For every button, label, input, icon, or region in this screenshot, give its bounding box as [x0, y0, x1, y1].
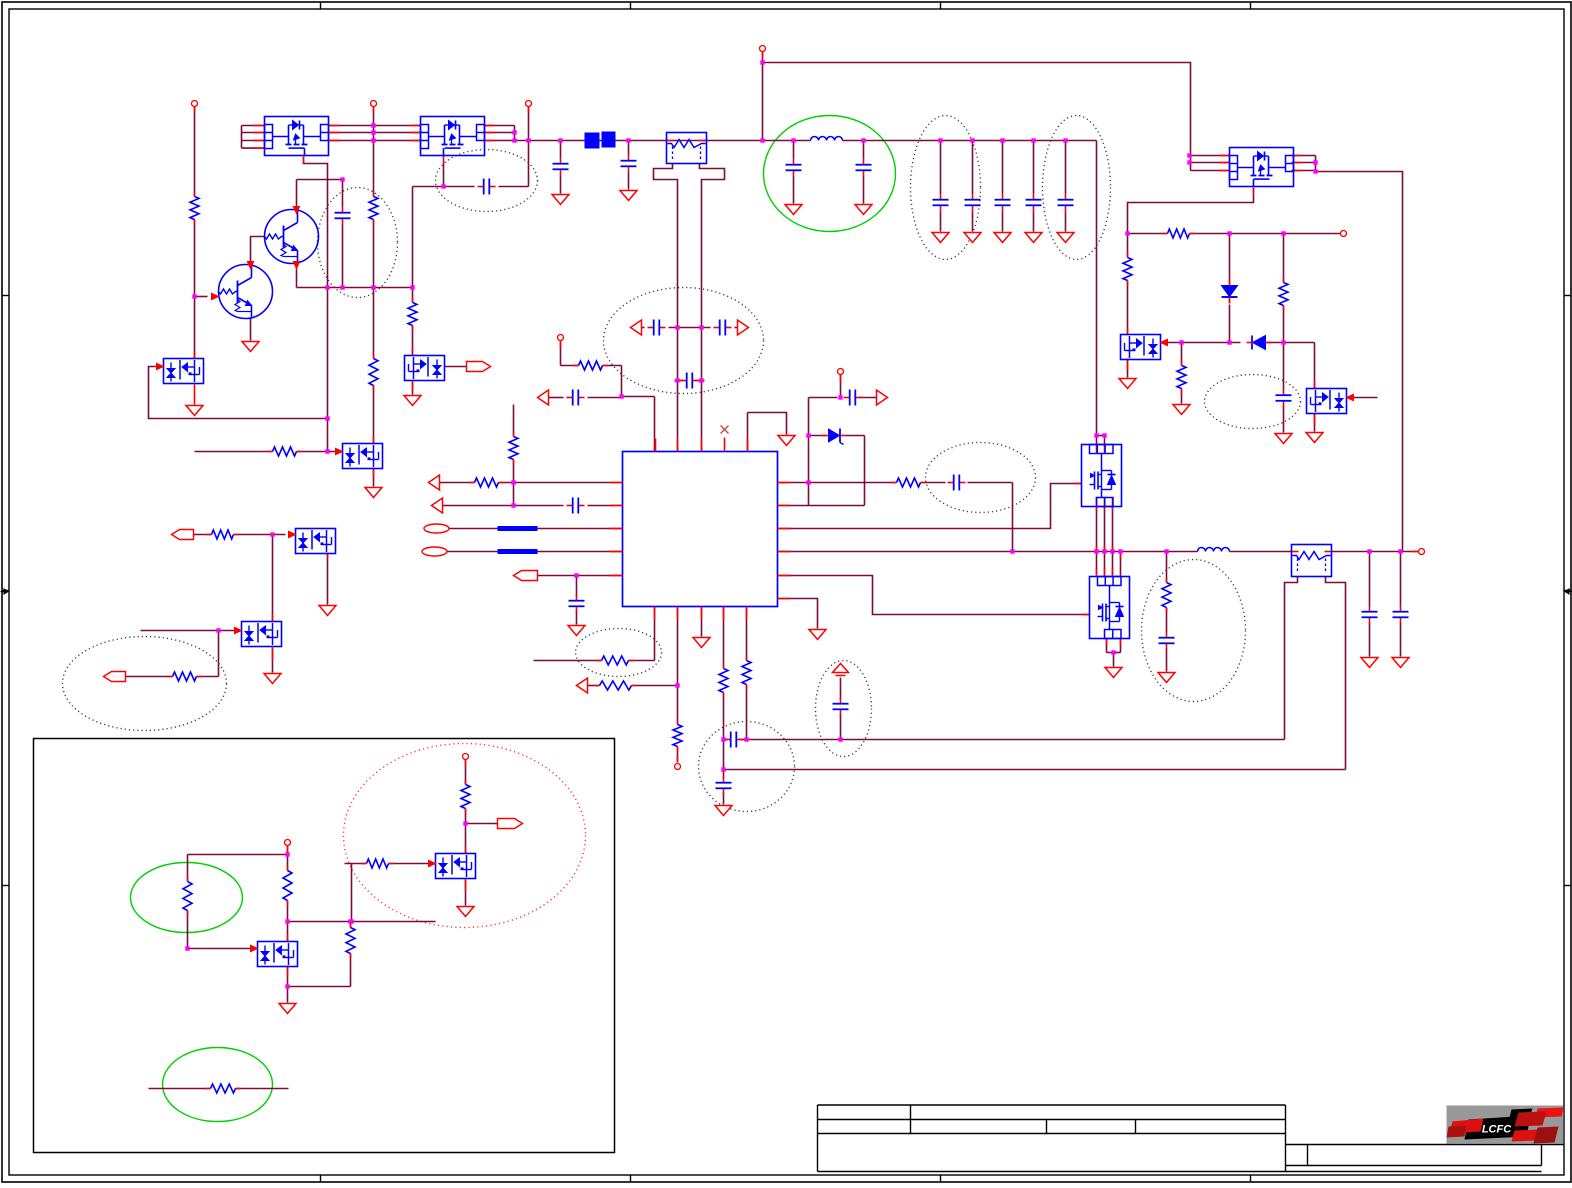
svg-text:LCFC: LCFC — [1482, 1124, 1512, 1136]
